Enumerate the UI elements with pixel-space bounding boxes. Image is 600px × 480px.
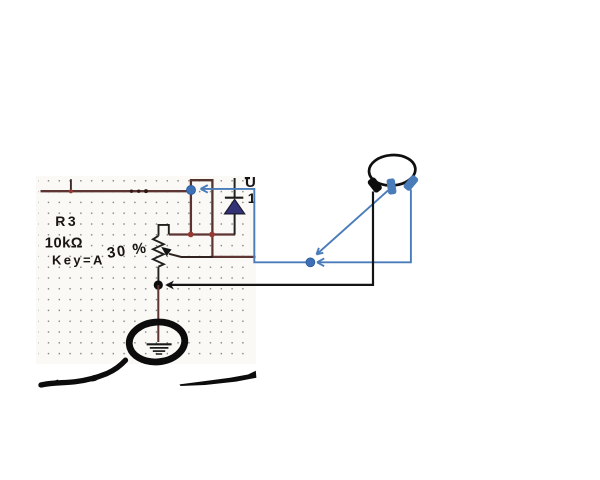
- annotation circled ground (hand-drawn ellipse): [128, 320, 187, 364]
- wire vertical from node: [190, 190, 192, 234]
- wire middle bus: [169, 233, 235, 235]
- grid dots: [38, 178, 252, 361]
- svg-text:10kΩ: 10kΩ: [45, 235, 83, 251]
- diode D1 top lead: [234, 178, 236, 198]
- wire to ground: [157, 285, 159, 342]
- hand-drawn tail stroke left: [41, 360, 126, 385]
- black arrow elbow: [167, 192, 373, 285]
- svg-text:Key=A: Key=A: [52, 252, 105, 267]
- resistor R3 top lead step: [159, 225, 169, 236]
- resistor R3 wiper arrow: [161, 247, 171, 256]
- diode D1 triangle: [225, 199, 245, 214]
- junction dot tick: [69, 189, 73, 193]
- junction J1: [188, 232, 194, 238]
- blue arrow elbow to circuit node: [201, 185, 311, 262]
- hand-drawn tail taper tip: [38, 380, 61, 387]
- blue dot annotation: [306, 258, 315, 267]
- wire elbow to right edge: [212, 235, 255, 257]
- resistor R3 zigzag: [153, 236, 164, 267]
- diode D1 cathode bar: [225, 197, 243, 199]
- hand-drawn stroke right: [180, 371, 257, 386]
- wire stub tick: [70, 179, 72, 191]
- blue arrow diagonal: [317, 191, 389, 255]
- resistor R3 wiper lead: [169, 254, 213, 257]
- schematic screenshot background: [36, 176, 256, 364]
- label D1 (D cropped by screenshot edge): [245, 177, 250, 179]
- junction J2: [209, 232, 215, 238]
- blue dot circuit node: [187, 186, 196, 195]
- grid dots showing on wire: [130, 189, 148, 193]
- marker blue middle: [386, 178, 397, 195]
- callout balloon ellipse: [368, 154, 416, 188]
- black arrowhead: [165, 281, 174, 290]
- resistor R3 bottom lead: [157, 267, 159, 285]
- diode D1 bottom lead: [234, 214, 236, 235]
- marker blue right: [403, 174, 420, 192]
- marker black: [367, 176, 383, 193]
- ground: [147, 344, 172, 354]
- node black junction: [154, 280, 163, 289]
- wire top horizontal: [41, 190, 191, 192]
- blue arrow right elbow: [317, 190, 411, 267]
- wire staircase bypass: [191, 180, 213, 234]
- hand-drawn stroke knot: [88, 374, 99, 383]
- svg-text:R3: R3: [55, 213, 78, 229]
